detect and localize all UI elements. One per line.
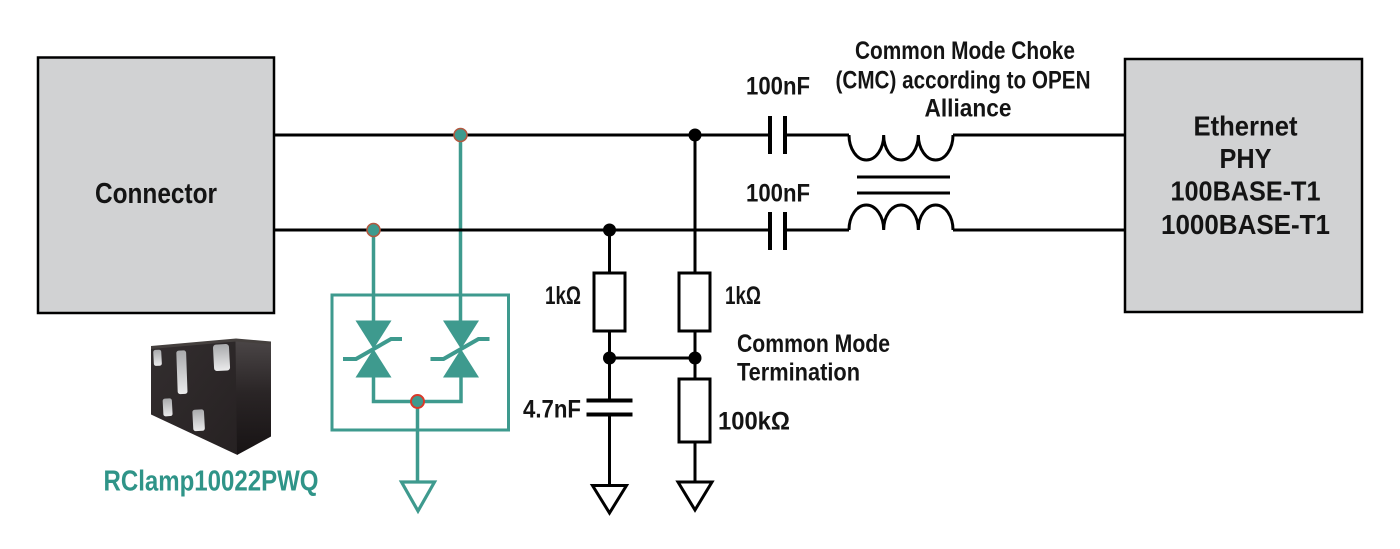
wire R2 bottom to node bbox=[694, 331, 697, 358]
capacitor C1 100nF (top) bbox=[770, 116, 785, 154]
node black junction on bottom wire bbox=[603, 224, 616, 237]
Ethernet PHY block bbox=[1125, 59, 1362, 312]
tvs diode D1 (left) bbox=[343, 321, 402, 378]
svg-text:100kΩ: 100kΩ bbox=[718, 408, 790, 436]
choke core line 2 bbox=[857, 192, 950, 195]
resistor R2 1k (right) bbox=[679, 273, 710, 331]
common mode choke bottom winding bbox=[849, 205, 953, 230]
wire R1 bottom to node bbox=[608, 331, 611, 358]
node junction left termination bbox=[603, 352, 616, 365]
svg-text:1kΩ: 1kΩ bbox=[545, 282, 581, 310]
wire R3 to ground bbox=[694, 442, 697, 482]
wire bottom pair: C2 to choke bbox=[787, 229, 850, 232]
capacitor C3 4.7nF bbox=[587, 401, 633, 415]
wire from top pair down to R2 bbox=[694, 135, 697, 273]
wire bottom pair: choke to PHY bbox=[953, 229, 1125, 232]
wire top pair: C1 to choke bbox=[787, 134, 850, 137]
chip package RClamp10022PWQ bbox=[151, 339, 271, 456]
label common mode choke bbox=[836, 37, 1091, 123]
node teal junction on bottom wire bbox=[367, 224, 380, 237]
ground under R3 bbox=[678, 482, 712, 510]
wire TVS right up to top pair bbox=[459, 135, 463, 321]
svg-text:100nF: 100nF bbox=[746, 180, 810, 208]
wire bottom pair: connector to C2 bbox=[274, 229, 769, 232]
wire node to C3 bbox=[608, 358, 611, 400]
wire joining termination nodes bbox=[610, 357, 696, 360]
svg-text:4.7nF: 4.7nF bbox=[523, 396, 581, 424]
node junction right termination bbox=[689, 352, 702, 365]
wire TVS right down to common node bbox=[417, 378, 461, 402]
svg-text:100BASE-T1: 100BASE-T1 bbox=[1171, 176, 1321, 207]
label common mode termination bbox=[737, 330, 890, 387]
resistor R1 1k (left) bbox=[594, 273, 625, 331]
tvs diode D2 (right) bbox=[431, 321, 490, 378]
ground TVS bbox=[402, 482, 435, 511]
svg-text:RClamp10022PWQ: RClamp10022PWQ bbox=[104, 466, 319, 498]
svg-text:Alliance: Alliance bbox=[925, 95, 1012, 123]
node TVS common bbox=[411, 395, 424, 408]
svg-text:Ethernet: Ethernet bbox=[1194, 111, 1298, 142]
wire TVS left down to common node bbox=[374, 378, 418, 402]
TVS array box RClamp10022PWQ bbox=[332, 295, 509, 430]
svg-text:1kΩ: 1kΩ bbox=[725, 282, 761, 310]
svg-text:Connector: Connector bbox=[95, 178, 217, 210]
svg-text:100nF: 100nF bbox=[746, 73, 810, 101]
wire top pair: choke to PHY bbox=[953, 134, 1125, 137]
svg-text:1000BASE-T1: 1000BASE-T1 bbox=[1161, 209, 1330, 240]
choke core line 1 bbox=[857, 176, 950, 179]
resistor R3 100k bbox=[679, 379, 710, 442]
node teal junction on top wire bbox=[454, 129, 467, 142]
svg-text:PHY: PHY bbox=[1220, 143, 1272, 174]
wire C3 to ground bbox=[608, 415, 611, 486]
wire common node to ground bbox=[416, 402, 420, 483]
capacitor C2 100nF (bottom) bbox=[770, 212, 785, 250]
node black junction on top wire bbox=[689, 129, 702, 142]
svg-text:Common Mode Choke: Common Mode Choke bbox=[855, 37, 1075, 65]
common mode choke top winding bbox=[849, 135, 953, 160]
svg-text:Common Mode: Common Mode bbox=[737, 330, 890, 358]
svg-text:(CMC) according to OPEN: (CMC) according to OPEN bbox=[836, 67, 1091, 95]
svg-text:Termination: Termination bbox=[737, 359, 860, 387]
connector block bbox=[38, 58, 274, 314]
wire top pair: connector to C1 bbox=[274, 134, 769, 137]
wire TVS left up to bottom pair bbox=[372, 230, 376, 321]
wire bottom pair over TVS lead crossing bbox=[450, 229, 472, 232]
ground under C3 bbox=[593, 486, 627, 514]
wire from bottom pair down to R1 bbox=[608, 230, 611, 273]
wire node to R3 bbox=[694, 358, 697, 379]
